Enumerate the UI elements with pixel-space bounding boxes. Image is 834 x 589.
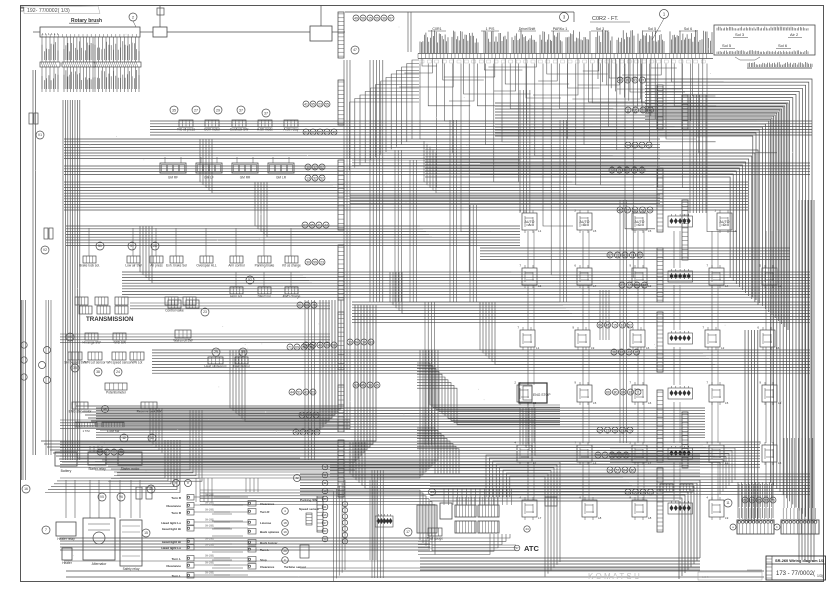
svg-text:23: 23 [318,102,322,106]
svg-text:Kit us charge: Kit us charge [282,264,301,268]
svg-text:V2: V2 [43,248,47,252]
svg-text:62: 62 [303,223,307,227]
svg-text:17: 17 [406,530,410,534]
svg-text:V5: V5 [100,495,104,499]
svg-text:(W-16B): (W-16B) [205,572,214,575]
svg-text:L4: L4 [725,284,729,288]
svg-text:Starter relay: Starter relay [88,467,106,471]
svg-text:L5: L5 [725,401,729,405]
svg-text:Reserve tank SW: Reserve tank SW [137,410,162,414]
svg-text:45: 45 [149,487,153,491]
svg-text:L5: L5 [778,461,782,465]
svg-text:L1: L1 [536,346,540,350]
svg-text:44: 44 [105,450,109,454]
svg-text:45: 45 [294,430,298,434]
svg-text:WN Lot: WN Lot [132,361,143,365]
svg-text:29: 29 [214,350,218,354]
svg-text:Arm control: Arm control [228,264,245,268]
svg-text:11: 11 [636,390,640,394]
svg-text:15: 15 [144,531,148,535]
svg-text:GM LR: GM LR [276,176,287,180]
svg-text:80: 80 [631,468,635,472]
svg-text:45: 45 [361,383,365,387]
svg-text:95: 95 [310,223,314,227]
svg-text:L1: L1 [778,284,782,288]
svg-text:Head light Hi: Head light Hi [162,540,181,544]
svg-text:ATC: ATC [524,544,539,553]
svg-text:24: 24 [116,370,120,374]
svg-text:13: 13 [306,176,310,180]
svg-text:GM RF: GM RF [168,176,178,180]
svg-text:Clearance: Clearance [260,502,275,506]
svg-text:L7: L7 [533,461,537,465]
svg-text:C0R1: C0R1 [432,27,441,31]
svg-text:20: 20 [283,549,287,553]
svg-text:Fuel gauge: Fuel gauge [427,537,443,541]
svg-text:C0R2 - FT.: C0R2 - FT. [592,16,619,22]
svg-text:Low air SW: Low air SW [125,264,141,268]
svg-text:35: 35 [73,366,77,370]
svg-text:Turn L: Turn L [172,574,182,578]
svg-text:Potentiometer: Potentiometer [106,391,127,395]
svg-text:L7: L7 [648,461,652,465]
svg-text:K O M A T S U: K O M A T S U [588,572,640,581]
svg-text:Air press: Air press [150,264,163,268]
svg-text:26: 26 [641,490,645,494]
svg-text:51: 51 [297,390,301,394]
svg-text:65: 65 [757,498,761,502]
svg-text:Safety relay: Safety relay [123,567,140,571]
svg-text:93: 93 [98,450,102,454]
svg-text:9+: 9+ [130,244,134,248]
svg-text:(W-16B): (W-16B) [205,562,214,565]
svg-text:16: 16 [24,487,28,491]
svg-text:Sol 3: Sol 3 [735,32,745,37]
svg-text:35: 35 [172,108,176,112]
svg-text:57: 57 [616,468,620,472]
svg-text:15: 15 [613,323,617,327]
svg-text:41: 41 [304,102,308,106]
svg-text:(W-16B): (W-16B) [205,509,214,512]
svg-text:Head light Lo: Head light Lo [161,521,181,525]
svg-text:Turn R: Turn R [171,511,182,515]
svg-text:GOV motor: GOV motor [204,128,221,132]
svg-text:Turbine sensor: Turbine sensor [284,565,307,569]
svg-text:Overspan ALL: Overspan ALL [196,264,216,268]
svg-text:88: 88 [112,450,116,454]
svg-text:26: 26 [153,244,157,248]
svg-text:Walra roll SW: Walra roll SW [173,339,192,343]
svg-text:7: 7 [45,528,47,532]
svg-text:44: 44 [324,223,328,227]
svg-text:L7: L7 [593,284,597,288]
svg-text:L6: L6 [648,401,652,405]
svg-text:55: 55 [325,102,329,106]
svg-text:28: 28 [626,490,630,494]
svg-text:Heat oil/deenns: Heat oil/deenns [204,365,227,369]
svg-text:SR-260 Wiring diagram 1/3: SR-260 Wiring diagram 1/3 [775,558,825,563]
svg-text:44: 44 [430,490,434,494]
svg-text:Clearance: Clearance [166,564,181,568]
svg-text:44: 44 [525,527,529,531]
svg-text:Horn sol.: Horn sol. [230,295,243,299]
svg-text:11: 11 [726,501,730,505]
svg-text:a5: a5 [103,407,107,411]
svg-text:Heater: Heater [62,561,73,565]
svg-text:38: 38 [96,370,100,374]
svg-text:L5: L5 [593,401,597,405]
svg-text:Turn L: Turn L [172,557,182,561]
svg-text:Sol 6: Sol 6 [778,43,788,48]
svg-text:47: 47 [515,546,519,550]
svg-text:78: 78 [312,303,316,307]
svg-text:69: 69 [295,345,299,349]
svg-text:L1: L1 [725,461,729,465]
svg-text:30: 30 [306,260,310,264]
svg-text:Sol 6: Sol 6 [684,27,692,31]
svg-text:4WD charge: 4WD charge [283,295,301,299]
svg-text:29: 29 [216,108,220,112]
svg-text:L6: L6 [646,346,650,350]
svg-text:23: 23 [320,260,324,264]
svg-text:32: 32 [313,176,317,180]
svg-text:L2: L2 [733,229,737,233]
svg-text:41: 41 [308,430,312,434]
svg-text:36: 36 [648,208,652,212]
svg-text:ENG stop motor: ENG stop motor [69,410,93,414]
svg-text:54: 54 [300,413,304,417]
svg-text:L5: L5 [648,229,652,233]
svg-text:97: 97 [389,16,393,20]
svg-text:Con/lock SW: Con/lock SW [230,128,248,132]
svg-text:18: 18 [283,521,287,525]
svg-text:27: 27 [194,108,198,112]
svg-text:Turn L: Turn L [260,548,269,552]
svg-text:1-3/M SW: 1-3/M SW [107,429,120,433]
svg-text:67: 67 [301,430,305,434]
svg-text:Clearance: Clearance [166,504,181,508]
svg-text:96: 96 [305,303,309,307]
svg-text:55: 55 [375,16,379,20]
svg-text:21: 21 [635,283,639,287]
svg-text:Head light Hi: Head light Hi [162,527,181,531]
svg-text:65: 65 [302,345,306,349]
svg-text:93: 93 [633,78,637,82]
svg-text:L6: L6 [776,346,780,350]
svg-text:PARKo 1: PARKo 1 [553,27,568,31]
svg-text:53: 53 [641,208,645,212]
svg-text:43: 43 [627,350,631,354]
svg-text:A.Str mode: A.Str mode [257,128,273,132]
svg-text:L6: L6 [538,284,542,288]
svg-text:Sol 5: Sol 5 [648,27,656,31]
svg-text:71: 71 [288,345,292,349]
svg-text:(W-16B): (W-16B) [205,525,214,528]
svg-text:WN Lot sensor: WN Lot sensor [84,361,106,365]
svg-text:36: 36 [382,16,386,20]
svg-text:42: 42 [295,476,299,480]
svg-text:L7: L7 [538,516,542,520]
svg-text:V6: V6 [119,495,123,499]
svg-text:52: 52 [320,176,324,180]
svg-text:V4: V4 [68,335,72,339]
svg-text:98: 98 [613,428,617,432]
svg-text:L9: L9 [725,516,729,520]
svg-text:23: 23 [203,310,207,314]
svg-text:TRANSMISSION: TRANSMISSION [86,316,134,323]
svg-text:Turn R: Turn R [260,510,270,514]
svg-text:26: 26 [612,350,616,354]
svg-text:84: 84 [623,468,627,472]
svg-text:GM LF: GM LF [204,176,214,180]
svg-text:Stop: Stop [260,558,267,562]
svg-text:L2: L2 [721,346,725,350]
svg-text:12: 12 [122,436,126,440]
svg-text:Parking SW: Parking SW [300,498,317,502]
svg-text:Back splance: Back splance [260,530,280,534]
svg-text:56: 56 [361,16,365,20]
svg-text:14: 14 [603,453,607,457]
svg-text:19: 19 [606,428,610,432]
svg-text:1 P/S: 1 P/S [486,27,495,31]
svg-text:Starter motor: Starter motor [121,467,141,471]
svg-text:49: 49 [354,16,358,20]
svg-text:65: 65 [634,490,638,494]
svg-text:173 - 77/0002(: 173 - 77/0002( [776,571,815,577]
svg-text:61: 61 [298,303,302,307]
svg-text:(W-16B): (W-16B) [205,538,214,541]
svg-text:1 2 3: 1 2 3 [702,575,709,579]
svg-text:(W-16B): (W-16B) [205,555,214,558]
svg-text:GM RR: GM RR [240,176,251,180]
svg-text:92: 92 [307,413,311,417]
svg-text:L8: L8 [648,516,652,520]
svg-text:69: 69 [315,430,319,434]
svg-text:Battery: Battery [61,469,72,473]
svg-text:L2: L2 [648,284,652,288]
svg-text:29: 29 [621,428,625,432]
svg-text:Exh. brake Sol: Exh. brake Sol [166,264,187,268]
svg-text:16: 16 [628,283,632,287]
svg-text:1/3): 1/3) [817,574,823,578]
svg-text:Control valve: Control valve [165,309,184,313]
svg-text:43: 43 [647,143,651,147]
svg-text:35: 35 [241,350,245,354]
svg-text:29: 29 [750,498,754,502]
svg-text:44: 44 [290,390,294,394]
svg-text:L3: L3 [593,461,597,465]
svg-text:Speed sensor: Speed sensor [299,507,320,511]
svg-text:1 T/M: 1 T/M [82,429,90,433]
svg-text:Alternator: Alternator [92,562,108,566]
svg-text:Air 2: Air 2 [790,32,799,37]
svg-text:85: 85 [309,345,313,349]
svg-text:99: 99 [313,260,317,264]
svg-text:94: 94 [355,340,359,344]
svg-text:78: 78 [119,450,123,454]
svg-text:79: 79 [628,428,632,432]
svg-text:License: License [260,521,272,525]
svg-text:Turn R: Turn R [171,496,182,500]
svg-text:Parking brake: Parking brake [255,264,275,268]
svg-text:13: 13 [150,436,154,440]
svg-text:Back buzzer: Back buzzer [260,541,278,545]
svg-text:15: 15 [649,490,653,494]
svg-text:94: 94 [626,143,630,147]
svg-text:Clearance: Clearance [260,565,275,569]
svg-text:Fuel sensor: Fuel sensor [233,365,251,369]
svg-text:41: 41 [304,390,308,394]
svg-text:Diiect sol.: Diiect sol. [258,295,272,299]
svg-text:37: 37 [239,108,243,112]
svg-text:66: 66 [606,390,610,394]
svg-text:32: 32 [764,498,768,502]
svg-text:24: 24 [598,428,602,432]
svg-text:68: 68 [743,498,747,502]
svg-text:ENG STOP: ENG STOP [533,393,551,397]
svg-text:A.Str relay: A.Str relay [284,128,299,132]
svg-text:76: 76 [771,498,775,502]
svg-text:WN speed sensor: WN speed sensor [106,361,132,365]
svg-text:V1: V1 [38,133,42,137]
svg-text:L5: L5 [593,229,597,233]
svg-text:95: 95 [311,102,315,106]
svg-text:(W-16B): (W-16B) [205,502,214,505]
svg-text:Brake lock sol.: Brake lock sol. [79,264,100,268]
svg-text:14: 14 [608,468,612,472]
svg-text:37: 37 [264,111,268,115]
svg-text:51: 51 [98,244,102,248]
svg-text:52: 52 [248,278,252,282]
svg-text:T/C oil press: T/C oil press [177,128,195,132]
svg-text:Heater relay: Heater relay [57,537,75,541]
svg-text:47: 47 [353,48,357,52]
svg-text:15: 15 [368,16,372,20]
svg-text:19: 19 [283,530,287,534]
svg-text:10: 10 [621,323,625,327]
svg-text:192- 77/0002( 1/3): 192- 77/0002( 1/3) [27,8,70,14]
svg-text:27: 27 [640,143,644,147]
svg-text:38: 38 [332,343,336,347]
svg-text:21: 21 [311,390,315,394]
svg-text:41: 41 [317,223,321,227]
svg-text:(W-16B): (W-16B) [205,494,214,497]
svg-text:23: 23 [633,143,637,147]
svg-text:58: 58 [596,453,600,457]
svg-text:L9: L9 [591,346,595,350]
svg-text:80: 80 [614,390,618,394]
svg-text:Sol 3: Sol 3 [596,27,604,31]
svg-text:L1: L1 [538,229,542,233]
svg-text:Head light Lo: Head light Lo [161,546,181,550]
svg-text:L8: L8 [598,516,602,520]
svg-text:Sol 5: Sol 5 [722,43,732,48]
